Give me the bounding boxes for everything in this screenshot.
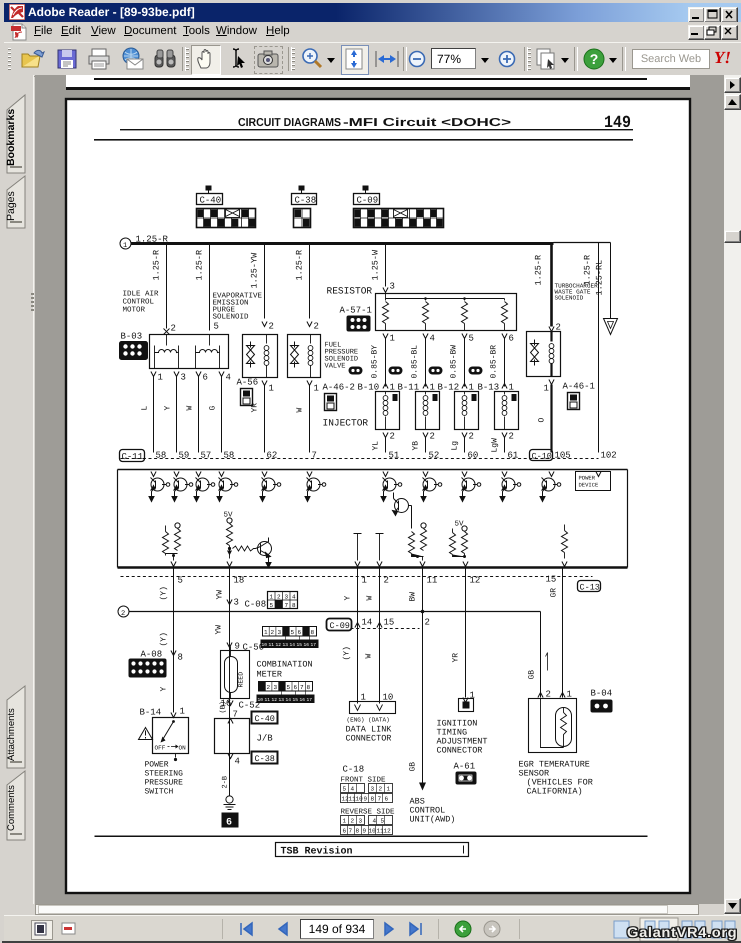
svg-text:CALIFORNIA): CALIFORNIA) [527,787,583,797]
label evaporative emission purge solenoid [213,292,263,322]
svg-text:57: 57 [201,451,212,461]
svg-text:INJECTOR: INJECTOR [323,418,369,429]
warning triangle [139,728,153,740]
ECU input arrows [151,472,601,477]
connector A-08 [129,650,167,678]
svg-text:8: 8 [307,684,311,691]
svg-text:15: 15 [297,643,303,648]
previous page bottom strip [66,75,690,90]
svg-text:W: W [186,406,195,411]
svg-text:0.85-BR: 0.85-BR [490,345,499,379]
svg-text:C-18: C-18 [343,765,365,775]
ECU bottom dashed row [121,575,593,586]
svg-text:5: 5 [381,818,385,825]
svg-text:1: 1 [270,594,274,601]
svg-text:2: 2 [269,322,274,332]
svg-text:IDLE AIR: IDLE AIR [123,291,160,299]
page footer rule [95,836,648,838]
svg-text:17: 17 [311,643,317,648]
wire YW pin18 down [215,568,240,791]
svg-text:8: 8 [311,629,315,636]
svg-text:B-03: B-03 [121,332,143,342]
injector 1 [376,392,400,430]
svg-text:C-09: C-09 [357,196,379,206]
svg-text:(Y): (Y) [343,646,352,660]
connector A-61 [454,762,477,785]
svg-text:18: 18 [234,576,245,586]
node 2 circle + horizontal wire [118,606,541,618]
svg-text:8: 8 [292,602,296,609]
svg-text:10: 10 [369,828,377,835]
svg-text:2: 2 [430,432,435,442]
svg-text:MOTOR: MOTOR [123,306,146,315]
connector C-52 [221,682,315,711]
injector 4 [495,392,519,430]
svg-text:A-57-1: A-57-1 [340,306,372,316]
wire 1.25-R to fuel sol valve [295,245,319,332]
injector connectors B-10 B-11 B-12 B-13 [349,367,514,393]
svg-text:B-04: B-04 [591,689,613,699]
wire YR to ignition timing [437,568,488,756]
combination meter C-50 [243,627,319,653]
svg-text:YL: YL [372,441,381,451]
svg-text:-MFI Circuit <DOHC>: -MFI Circuit <DOHC> [343,117,511,129]
power steering pressure switch B-14 [139,707,189,797]
horizontal scrollbar [35,904,699,915]
transistor Q12 [256,538,272,568]
TSB revision box [276,843,469,858]
svg-text:6: 6 [203,373,208,383]
svg-text:STEERING: STEERING [145,770,184,779]
svg-text:15: 15 [293,698,299,703]
label fuel pressure solenoid valve [325,342,359,371]
svg-text:5: 5 [287,684,291,691]
connector C-09 bottom [327,619,352,632]
svg-text:2: 2 [509,432,514,442]
svg-text:COMBINATION: COMBINATION [257,660,313,670]
svg-text:15: 15 [384,618,395,628]
svg-text:0.85-BL: 0.85-BL [411,345,420,379]
svg-text:PRESSURE: PRESSURE [145,779,184,788]
svg-text:12: 12 [272,697,278,703]
svg-text:METER: METER [257,670,283,680]
svg-text:2: 2 [271,629,275,636]
svg-text:W: W [296,408,305,413]
svg-text:4: 4 [373,818,377,825]
svg-text:1.25-YW: 1.25-YW [250,252,260,289]
svg-text:3: 3 [234,598,239,608]
injector feed wires 0.85 [371,339,505,387]
svg-text:SOLENOID: SOLENOID [555,295,584,302]
svg-text:105: 105 [555,451,571,461]
svg-text:0.85-BY: 0.85-BY [371,345,380,379]
connector A-46-2 [323,383,369,429]
svg-text:A-46-1: A-46-1 [563,382,595,392]
svg-text:C-10: C-10 [532,452,552,462]
svg-text:RESISTOR: RESISTOR [327,286,373,297]
svg-text:0.85-BW: 0.85-BW [450,345,459,379]
transistor Q9 [460,478,481,502]
svg-text:102: 102 [601,451,617,461]
svg-text:1: 1 [180,707,185,717]
svg-text:1: 1 [544,384,549,394]
svg-text:1: 1 [158,373,163,383]
svg-text:16: 16 [304,642,310,648]
svg-text:3: 3 [278,629,282,636]
resistor pair at pin5 [163,523,181,567]
svg-text:1: 1 [269,384,274,394]
connector label C-40 bottom [252,712,278,725]
svg-text:7: 7 [349,828,353,835]
wire 1.25-R right to pin 102 [583,243,599,453]
svg-text:9: 9 [363,828,367,835]
svg-text:A-46-2: A-46-2 [323,383,355,393]
svg-text:1.25-RL: 1.25-RL [595,260,605,296]
svg-text:2: 2 [351,818,355,825]
svg-text:16: 16 [300,697,306,703]
svg-text:C-08: C-08 [245,600,267,610]
connector C-38 [292,186,317,228]
svg-text:3: 3 [371,786,375,793]
5V source at pin12 [450,521,469,567]
svg-text:2: 2 [425,618,430,628]
connector B-04 [591,689,613,713]
wire 1.25-R to IAC pin5 [195,245,210,331]
svg-text:10: 10 [356,796,364,803]
wire GB to EGR pin2 [528,612,551,700]
evap purge solenoid box [243,335,278,378]
wire 1.25-RL with arrow [595,243,618,335]
svg-text:Y: Y [164,406,173,411]
wire 1.25-R to IAC pin2 [152,245,167,329]
svg-text:BW: BW [409,592,418,602]
svg-text:CONNECTOR: CONNECTOR [346,734,392,744]
svg-text:59: 59 [179,451,190,461]
svg-text:GR: GR [550,588,559,598]
svg-text:15: 15 [546,575,557,585]
svg-text:7: 7 [378,796,382,803]
svg-text:POWER: POWER [579,475,596,482]
svg-text:6: 6 [385,796,389,803]
transistor Q7 [381,478,402,502]
wire BW/GB to ABS [409,568,456,825]
svg-text:(Y): (Y) [160,586,169,600]
svg-text:52: 52 [429,451,440,461]
resistor R4 [502,302,508,324]
svg-text:CIRCUIT DIAGRAMS: CIRCUIT DIAGRAMS [238,117,341,129]
svg-text:1.25-R: 1.25-R [295,250,305,281]
svg-text:10: 10 [262,642,268,648]
svg-text:B-14: B-14 [140,708,162,718]
transistor Q3 [194,478,215,502]
svg-text:2: 2 [277,594,281,601]
ECU top dashed connector row [120,450,617,463]
svg-text:C-40: C-40 [255,714,275,724]
svg-text:W: W [365,654,374,659]
wire 1.25-YW to evap solenoid [250,245,274,332]
svg-text:DEVICE: DEVICE [579,482,600,489]
svg-text:11: 11 [427,576,438,586]
junction block J/B [215,701,274,767]
svg-text:YW: YW [215,625,224,635]
svg-text:4: 4 [292,594,296,601]
transistor Q11 [540,478,561,502]
transistor Q10 [500,478,521,502]
turbo wastegate solenoid [555,283,599,302]
svg-text:5: 5 [291,629,295,636]
svg-text:3: 3 [359,818,363,825]
svg-text:11: 11 [269,643,275,648]
svg-text:12: 12 [470,576,481,586]
svg-text:GB: GB [528,670,537,680]
sidebar tabs [4,75,34,904]
resistor output pins 1 4 5 6 [383,334,514,344]
svg-text:A-56: A-56 [237,378,259,388]
svg-text:C-11: C-11 [122,452,144,462]
svg-text:W: W [366,596,375,601]
svg-text:4: 4 [351,786,355,793]
svg-text:(B): (B) [219,701,228,714]
svg-text:Y: Y [344,596,353,601]
transistor Q8 [421,478,442,502]
label idle air control motor [123,291,160,315]
svg-text:C-38: C-38 [255,754,275,764]
svg-text:Lg: Lg [451,441,460,451]
svg-text:GB: GB [409,762,418,772]
toolbar [4,42,741,77]
svg-text:1.25-R: 1.25-R [534,255,544,286]
svg-text:1: 1 [390,334,395,344]
EGR temperature sensor [519,699,593,797]
svg-text:13: 13 [283,642,289,648]
svg-text:VALVE: VALVE [325,363,346,371]
connector C-40 [197,186,256,228]
svg-text:(Y): (Y) [160,632,169,646]
connector A-57-1 [347,316,371,332]
sensor stub pins 1 2 [354,534,384,567]
svg-text:YR: YR [452,653,461,663]
svg-text:5: 5 [469,334,474,344]
transistor Q4 [217,478,238,502]
injector 2 [416,392,440,430]
svg-text:3: 3 [274,684,278,691]
svg-text:10: 10 [258,697,264,703]
transistor Q5 [260,478,281,502]
svg-text:Y: Y [160,687,169,692]
evap pin1 wire YR [251,381,274,453]
svg-text:3: 3 [181,373,186,383]
svg-text:2: 2 [384,576,389,586]
svg-text:13: 13 [279,697,285,703]
transistor Q6 [305,478,326,502]
svg-text:YW: YW [216,590,225,600]
data link connector [346,693,396,744]
svg-text:12: 12 [384,828,392,835]
svg-text:62: 62 [267,451,278,461]
svg-text:6: 6 [509,334,514,344]
resistor label [327,286,373,316]
connector A-46-1 [563,382,595,410]
svg-text:1.25-W: 1.25-W [371,249,381,281]
resistor pack box [376,294,517,331]
wires 1 2 to data link [343,568,430,704]
ECU box [118,470,628,568]
svg-text:4: 4 [226,373,231,383]
svg-text:7: 7 [300,684,304,691]
svg-text:1.25-R: 1.25-R [152,250,162,281]
svg-text:A-61: A-61 [454,762,476,772]
svg-text:5: 5 [214,322,219,332]
svg-text:2: 2 [121,610,125,618]
svg-text:2: 2 [379,786,383,793]
turbo solenoid box [527,332,561,377]
injector output wires [372,432,514,453]
vertical scrollbar [724,75,741,915]
resistor at pin15 [562,525,568,567]
svg-text:1: 1 [387,786,391,793]
svg-text:7: 7 [285,602,289,609]
svg-text:6: 6 [298,629,302,636]
svg-text:O: O [538,418,547,423]
svg-text:POWER: POWER [145,761,169,770]
svg-text:6: 6 [294,684,298,691]
svg-text:C-09: C-09 [330,621,350,631]
connector label C-38 bottom [252,752,278,765]
svg-text:1: 1 [362,576,367,586]
title bar [4,3,741,22]
wire 1.25-R thick to turbo solenoid [534,245,561,333]
wire GR to EGR pin1 [550,568,572,700]
top bus wire thin right [554,242,611,244]
transistor Q1 [149,478,170,502]
connector C-18 tables [341,765,396,835]
resistor R1 [383,302,389,324]
fuel pressure solenoid valve box [288,335,321,378]
svg-text:12: 12 [276,642,282,648]
svg-text:SOLENOID: SOLENOID [213,313,250,322]
svg-text:G: G [209,406,218,411]
svg-text:C-13: C-13 [580,583,600,593]
resistor R2 [423,302,429,324]
wires L Y W G [141,377,222,453]
svg-text:C-38: C-38 [295,196,317,206]
ground mark 6 [222,813,239,829]
svg-text:1.25-R: 1.25-R [583,255,593,286]
status bar [4,915,741,942]
svg-text:UNIT(AWD): UNIT(AWD) [410,815,456,825]
svg-text:4: 4 [430,334,435,344]
menu bar [4,22,741,42]
wire 1.25-W to resistor pin3 [371,245,395,293]
svg-text:3: 3 [390,282,395,292]
svg-text:17: 17 [307,698,313,703]
IAC pins 1 3 6 4 [151,372,231,383]
svg-text:8: 8 [371,796,375,803]
connector C-08 [245,592,298,610]
svg-text:OFF: OFF [155,745,166,752]
svg-text:58: 58 [224,451,235,461]
svg-text:9: 9 [364,796,368,803]
svg-text:SWITCH: SWITCH [145,788,174,797]
5V source at pin18 [224,512,272,568]
svg-text:J/B: J/B [257,734,274,744]
svg-text:2: 2 [390,432,395,442]
svg-text:51: 51 [389,451,400,461]
svg-text:58: 58 [156,451,167,461]
svg-text:1.25-R: 1.25-R [195,250,205,281]
svg-text:YB: YB [412,441,421,451]
svg-text:14: 14 [286,698,292,703]
svg-text:8: 8 [178,653,183,663]
svg-text:LgW: LgW [491,438,500,453]
svg-text:CONTROL: CONTROL [123,298,155,307]
injector 3 [455,392,479,430]
svg-text:2: 2 [314,322,319,332]
svg-text:TSB Revision: TSB Revision [281,846,353,858]
label combination meter [257,660,313,680]
top bus wire thick [131,242,554,245]
connector C-09 [354,186,444,228]
svg-text:8: 8 [356,828,360,835]
svg-text:6: 6 [226,818,232,829]
transistor Q13 + resistor pair pin11 [393,493,427,567]
svg-text:2: 2 [469,432,474,442]
svg-text:1: 1 [314,384,319,394]
reed meter box [221,647,250,699]
svg-text:L: L [141,406,150,411]
svg-text:5: 5 [343,786,347,793]
svg-text:ON: ON [179,745,187,752]
svg-text:11: 11 [265,698,271,703]
svg-text:A-08: A-08 [141,650,163,660]
svg-text:14: 14 [362,618,373,628]
connector C-13 [578,581,601,593]
turbo pin1 wire O [538,380,555,453]
transistor Q2 [172,478,193,502]
svg-text:1: 1 [123,242,127,250]
svg-text:3: 3 [285,594,289,601]
svg-text:4: 4 [235,757,240,767]
svg-text:5: 5 [178,576,183,586]
svg-text:1: 1 [343,818,347,825]
svg-text:6: 6 [343,828,347,835]
page [66,99,690,893]
node 1 circle [120,235,169,251]
ground wire 2-B [222,776,236,810]
fuel pin1 wire W [296,381,319,453]
power device box [576,472,611,491]
connector A-56 [237,378,259,406]
svg-text:(ENG) (DATA): (ENG) (DATA) [347,717,390,724]
connector B-03 [120,332,148,360]
svg-text:1: 1 [264,629,268,636]
resistor R3 [462,302,468,324]
svg-text:61: 61 [508,451,519,461]
svg-text:C-40: C-40 [200,196,222,206]
svg-text:CONNECTOR: CONNECTOR [437,746,483,756]
IAC motor U:B-03 [150,322,229,369]
svg-text:7: 7 [312,451,317,461]
wire (Y) pin5 down [160,568,183,713]
svg-text:60: 60 [468,451,479,461]
page header [94,114,633,141]
svg-text:14: 14 [290,643,296,648]
svg-text:2-B: 2-B [222,776,230,789]
svg-text:2: 2 [171,324,176,334]
svg-text:2: 2 [267,684,271,691]
svg-text:5: 5 [270,602,274,609]
svg-text:REED: REED [238,672,245,688]
